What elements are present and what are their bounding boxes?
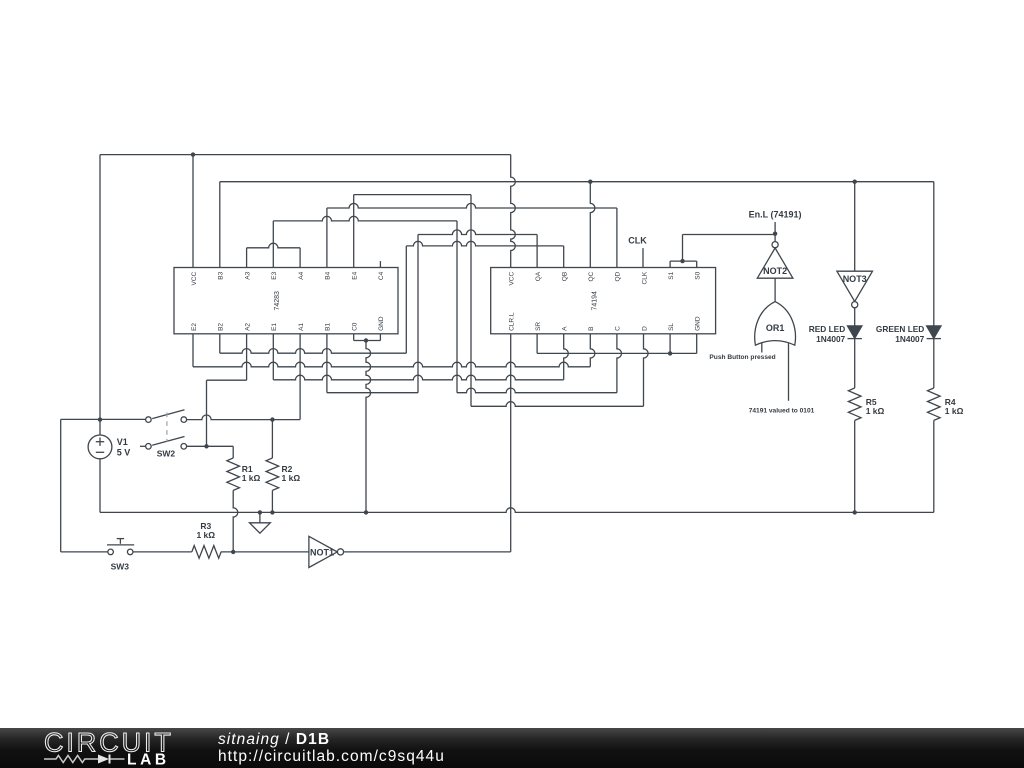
wire QA pin riser xyxy=(536,235,538,268)
wire net A1 drop to SW2 pole1 rail xyxy=(299,334,301,420)
node VCC junction at IC1 VCC xyxy=(191,152,195,156)
wire E3 pin riser xyxy=(272,221,274,268)
wire SW3 to R3 xyxy=(133,551,192,553)
svg-text:CLK: CLK xyxy=(641,271,648,284)
wire B4 pin riser xyxy=(326,208,328,268)
svg-text:B4: B4 xyxy=(325,271,332,279)
switch SW2 gang link dashed xyxy=(166,413,168,442)
wire SR pin drop xyxy=(536,334,538,354)
diode D2 RED LED xyxy=(848,326,862,338)
node R3/NOT1 junction xyxy=(231,550,235,554)
wire far left to SW3 xyxy=(61,551,108,553)
wire SW2 pole2 rail to R1 xyxy=(187,445,234,447)
svg-text:A1: A1 xyxy=(298,323,305,331)
svg-text:GND: GND xyxy=(695,316,702,331)
node V1+ junction xyxy=(98,417,102,421)
wire CLR.L drop to NOT1 row xyxy=(510,334,512,552)
source V1 plus xyxy=(96,441,104,443)
wire QA net drop xyxy=(417,235,419,393)
diode D1 GREEN LED xyxy=(927,326,941,338)
switch SW2 pole2 lever xyxy=(152,437,184,446)
svg-text:SR: SR xyxy=(535,322,542,331)
svg-text:E4: E4 xyxy=(352,271,359,279)
node C0/GND junction xyxy=(364,338,368,342)
svg-text:V1: V1 xyxy=(117,437,128,447)
wire B pin drop xyxy=(590,334,595,367)
svg-text:D: D xyxy=(641,326,648,331)
op NOT3 triangle xyxy=(837,271,873,301)
wire NOT2 to OR1 xyxy=(774,278,776,302)
wire left VCC drop to V1 xyxy=(99,155,101,435)
wire R5 bottom riser xyxy=(854,420,856,512)
wire ground rail xyxy=(100,508,934,513)
svg-text:B1: B1 xyxy=(325,323,332,331)
wire A4 pin riser xyxy=(299,248,301,268)
switch SW3 plunger xyxy=(107,544,134,546)
wire C0 net drop to ground rail xyxy=(366,341,371,513)
wire net B4-QD rail xyxy=(327,203,617,208)
wire R2 top riser xyxy=(271,420,273,458)
wire net E4 top rail xyxy=(354,194,471,196)
resistor R5 xyxy=(848,388,861,420)
svg-text:1 kΩ: 1 kΩ xyxy=(196,530,215,540)
svg-text:B2: B2 xyxy=(218,323,225,331)
wire D pin drop xyxy=(644,334,649,407)
svg-text:QA: QA xyxy=(535,271,542,281)
switch SW2 pole2 stub xyxy=(140,445,146,447)
wire QB net drop xyxy=(405,246,407,353)
CircuitLab logo xyxy=(30,728,220,768)
svg-text:A4: A4 xyxy=(298,271,305,279)
switch SW2 pole1 lever xyxy=(152,410,184,419)
wire V1 bottom to ground rail xyxy=(99,459,101,513)
op NOT3 bubble xyxy=(852,302,858,308)
wire QB pin riser xyxy=(563,246,565,268)
wire net E1-A rail xyxy=(273,375,563,380)
wire SW2 pole1 rail xyxy=(187,415,301,420)
wire NOT3 out to RED LED xyxy=(854,308,856,326)
resistor R2 xyxy=(266,458,279,490)
svg-text:VCC: VCC xyxy=(191,272,198,286)
wire GREEN LED drop xyxy=(933,182,935,326)
wire IC2 VCC drop xyxy=(511,155,516,268)
svg-text:74283: 74283 xyxy=(274,291,281,311)
wire R3 to NOT1 xyxy=(221,551,309,553)
svg-text:QC: QC xyxy=(588,271,595,281)
node NOT3 input junction xyxy=(853,180,857,184)
svg-text:RED LED: RED LED xyxy=(809,324,845,334)
wire R1 bottom drop xyxy=(233,490,238,552)
svg-text:QD: QD xyxy=(615,271,622,281)
wire E4 net drop xyxy=(470,195,472,407)
wire B1 pin drop xyxy=(326,334,328,393)
wire S1S0 riser to En.L rail xyxy=(682,235,684,262)
wire SL pin drop xyxy=(669,334,671,354)
svg-text:QB: QB xyxy=(562,272,569,281)
wire net B1-QA rail xyxy=(327,392,418,394)
svg-text:E3: E3 xyxy=(271,271,278,279)
wire A2 pin drop xyxy=(246,334,248,380)
wire top VCC rail xyxy=(100,154,511,156)
wire V1 top rail xyxy=(61,418,146,420)
wire B2 pin drop xyxy=(219,334,221,353)
wire net E2-B rail xyxy=(193,362,590,367)
wire diode D2 RED LED cathode down xyxy=(854,339,856,389)
wire A pin drop xyxy=(564,334,569,380)
svg-text:E2: E2 xyxy=(191,323,198,331)
wire diode D1 GREEN LED cathode down xyxy=(933,339,935,389)
IC U2 74194 box xyxy=(491,268,716,334)
wire NOT1 output to CLR.L xyxy=(344,551,511,553)
svg-text:A: A xyxy=(562,326,569,331)
wire En.L rail to NOT2 xyxy=(683,234,776,236)
svg-text:OR1: OR1 xyxy=(766,323,785,333)
svg-text:A3: A3 xyxy=(244,271,251,279)
op NOT2 triangle xyxy=(757,248,793,278)
node En.L junction xyxy=(773,232,777,236)
wire E4 pin riser xyxy=(353,195,355,268)
node C0 net on ground rail xyxy=(364,510,368,514)
wire E3 net drop xyxy=(456,221,458,393)
wire QD drop xyxy=(616,208,618,268)
svg-text:A2: A2 xyxy=(244,323,251,331)
switch SW2 pole1 terminals xyxy=(146,417,152,423)
svg-text:Push Button pressed: Push Button pressed xyxy=(709,354,775,361)
svg-text:5 V: 5 V xyxy=(117,447,131,457)
wire OR1 left input stub xyxy=(761,343,763,353)
node SL junction xyxy=(668,351,672,355)
wire R2 bottom drop xyxy=(271,490,273,512)
svg-text:B: B xyxy=(588,327,595,331)
svg-text:S0: S0 xyxy=(695,271,702,279)
svg-text:SW3: SW3 xyxy=(111,561,130,571)
wire net B3-QC-NOT3-GREENLED rail xyxy=(220,181,934,183)
node R2 bottom junction xyxy=(270,510,274,514)
wire E1 pin drop xyxy=(272,334,274,380)
svg-text:S1: S1 xyxy=(668,271,675,279)
wire net SR-SL-GND rail xyxy=(537,352,697,354)
svg-text:NOT1: NOT1 xyxy=(310,547,334,557)
op NOT1 bubble xyxy=(337,549,343,555)
node SW2 pole2 junction xyxy=(204,444,208,448)
svg-text:NOT2: NOT2 xyxy=(763,266,787,276)
wire GND2 pin drop xyxy=(696,334,698,354)
switch SW3 terminals xyxy=(108,549,114,555)
svg-text:CLK: CLK xyxy=(628,236,647,246)
wire net E4-D rail xyxy=(471,402,644,407)
wire net E3-C rail xyxy=(457,388,617,393)
wire C0-GND bridge under IC1 xyxy=(354,340,381,342)
svg-text:SW2: SW2 xyxy=(157,449,176,459)
svg-text:C: C xyxy=(615,326,622,331)
wire E2 pin drop xyxy=(192,334,194,367)
wire IC1 VCC pin xyxy=(192,155,194,268)
svg-text:74194: 74194 xyxy=(591,291,598,311)
switch SW2 pole2 terminals xyxy=(146,444,152,450)
svg-text:1 kΩ: 1 kΩ xyxy=(866,406,885,416)
ground symbol xyxy=(259,512,261,522)
wire R1 top riser xyxy=(232,446,234,458)
svg-text:1 kΩ: 1 kΩ xyxy=(242,473,261,483)
svg-text:CLR.L: CLR.L xyxy=(508,312,515,331)
svg-text:GND: GND xyxy=(378,316,385,331)
resistor R4 xyxy=(928,388,941,420)
wire far left drop xyxy=(60,419,62,552)
wire net QA rail xyxy=(418,230,537,235)
node S1S0 junction xyxy=(680,259,684,263)
op OR1 body xyxy=(755,302,796,346)
wire net QB rail xyxy=(406,241,563,246)
wire C4 stub xyxy=(379,261,381,267)
wire net A2 rail to switch xyxy=(207,379,247,381)
node QC junction xyxy=(588,180,592,184)
IC U1 74283 box xyxy=(174,268,398,334)
wire switch net drop xyxy=(206,380,208,446)
wire B3 pin riser xyxy=(219,182,221,268)
svg-text:LAB: LAB xyxy=(127,751,170,768)
svg-text:VCC: VCC xyxy=(508,272,515,286)
svg-text:1 kΩ: 1 kΩ xyxy=(282,473,301,483)
resistor R1 xyxy=(227,458,240,490)
resistor R3 xyxy=(192,546,221,559)
wire R4 bottom riser xyxy=(933,420,935,512)
node R5 bottom junction xyxy=(853,510,857,514)
op NOT2 bubble xyxy=(772,242,778,248)
wire net B2-QB rail xyxy=(220,349,406,354)
svg-text:B3: B3 xyxy=(218,271,225,279)
wire S1-S0 bridge xyxy=(670,260,697,262)
svg-text:SL: SL xyxy=(668,323,675,331)
svg-text:1N4007: 1N4007 xyxy=(895,334,924,344)
svg-text:NOT3: NOT3 xyxy=(843,274,867,284)
svg-text:1N4007: 1N4007 xyxy=(816,334,845,344)
wire CLK stub xyxy=(642,248,644,267)
svg-text:C4: C4 xyxy=(378,271,385,280)
svg-text:GREEN LED: GREEN LED xyxy=(876,324,924,334)
wire net E3 top rail xyxy=(273,216,457,221)
wire NOT3 input drop xyxy=(854,182,856,272)
svg-text:C0: C0 xyxy=(352,322,359,331)
wire net A3-A4 bridge xyxy=(247,243,301,248)
node ground symbol junction xyxy=(258,510,262,514)
source V1 5V circle xyxy=(88,435,112,459)
wire QC drop xyxy=(590,182,595,268)
svg-text:En.L (74191): En.L (74191) xyxy=(749,210,802,220)
op NOT1 triangle xyxy=(309,536,337,567)
wire OR1 right input stub xyxy=(788,343,790,400)
wire C pin drop xyxy=(617,334,622,393)
wire En.L label stub xyxy=(774,222,776,242)
wire A3 pin riser xyxy=(246,248,248,268)
source V1 minus xyxy=(96,451,104,453)
svg-text:74191 valued to 0101: 74191 valued to 0101 xyxy=(749,408,815,415)
svg-text:1 kΩ: 1 kΩ xyxy=(945,406,964,416)
node R2 top junction xyxy=(270,417,274,421)
svg-text:E1: E1 xyxy=(271,323,278,331)
